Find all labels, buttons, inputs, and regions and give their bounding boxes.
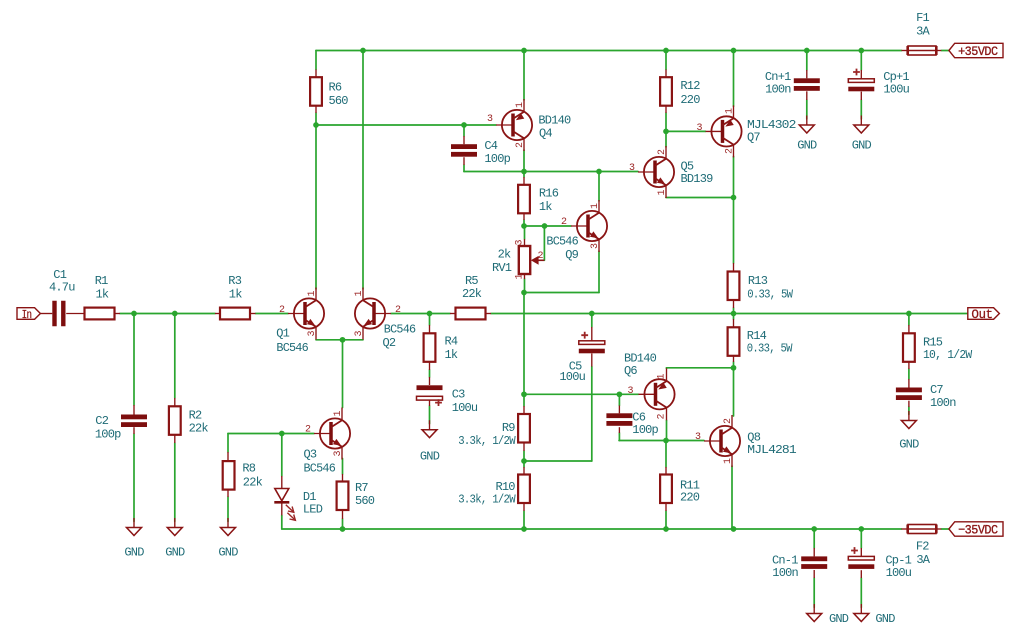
svg-text:2: 2 [561, 217, 567, 228]
svg-text:1: 1 [657, 189, 668, 195]
svg-text:GND: GND [218, 546, 238, 560]
svg-text:1: 1 [333, 410, 344, 416]
svg-text:3: 3 [333, 450, 344, 456]
svg-text:2: 2 [724, 148, 735, 154]
svg-text:4.7u: 4.7u [49, 280, 75, 294]
svg-text:1: 1 [307, 290, 318, 296]
svg-text:R9: R9 [502, 421, 515, 435]
svg-text:GND: GND [420, 450, 440, 464]
svg-text:2: 2 [657, 149, 668, 155]
svg-text:2: 2 [723, 418, 734, 424]
svg-text:1: 1 [514, 273, 525, 279]
svg-text:R12: R12 [680, 79, 700, 93]
svg-text:1: 1 [724, 108, 735, 114]
svg-text:GND: GND [899, 438, 919, 452]
svg-text:R16: R16 [539, 187, 559, 201]
svg-text:2: 2 [305, 425, 311, 436]
svg-text:2: 2 [656, 413, 667, 419]
svg-text:C2: C2 [95, 414, 108, 428]
svg-text:GND: GND [875, 612, 895, 626]
svg-text:GND: GND [165, 546, 185, 560]
svg-text:GND: GND [852, 139, 872, 153]
svg-text:3.3k, 1/2W: 3.3k, 1/2W [458, 493, 516, 507]
svg-text:1: 1 [723, 458, 734, 464]
svg-text:Q7: Q7 [747, 131, 760, 145]
svg-text:Q9: Q9 [565, 248, 578, 262]
svg-text:BD139: BD139 [681, 172, 714, 186]
svg-text:100p: 100p [95, 427, 121, 441]
svg-text:0.33, 5W: 0.33, 5W [747, 342, 793, 356]
svg-text:Q3: Q3 [304, 448, 317, 462]
svg-text:0.33, 5W: 0.33, 5W [747, 288, 793, 302]
svg-text:100p: 100p [484, 152, 510, 166]
svg-text:1: 1 [354, 290, 365, 296]
svg-text:2k: 2k [498, 247, 511, 261]
svg-text:3: 3 [590, 243, 601, 249]
svg-text:2: 2 [279, 305, 285, 316]
svg-text:1k: 1k [539, 200, 552, 214]
svg-text:R1: R1 [95, 274, 108, 288]
svg-text:3: 3 [695, 432, 701, 443]
svg-text:GND: GND [797, 139, 817, 153]
svg-text:−35VDC: −35VDC [958, 523, 998, 538]
svg-text:3: 3 [514, 239, 525, 245]
svg-text:R8: R8 [242, 462, 255, 476]
svg-text:3: 3 [487, 114, 493, 125]
svg-text:Q4: Q4 [539, 126, 552, 140]
svg-text:MJL4281: MJL4281 [747, 443, 796, 457]
svg-text:1: 1 [515, 102, 526, 108]
svg-text:BC546: BC546 [276, 341, 308, 355]
svg-text:1k: 1k [445, 348, 458, 362]
svg-text:F2: F2 [916, 540, 929, 554]
svg-text:BC546: BC546 [304, 462, 336, 476]
svg-text:3A: 3A [916, 25, 930, 39]
svg-text:BC546: BC546 [384, 322, 416, 336]
svg-text:22k: 22k [462, 287, 482, 301]
svg-text:100u: 100u [559, 370, 585, 384]
svg-text:2: 2 [395, 305, 401, 316]
svg-text:3: 3 [696, 123, 702, 134]
svg-text:R13: R13 [748, 274, 768, 288]
svg-text:100u: 100u [452, 401, 478, 415]
svg-text:R2: R2 [189, 408, 202, 422]
svg-text:2: 2 [537, 251, 543, 262]
svg-text:R3: R3 [228, 274, 241, 288]
svg-text:In: In [22, 309, 32, 322]
svg-text:Q6: Q6 [624, 364, 637, 378]
svg-text:220: 220 [680, 93, 700, 107]
svg-text:3: 3 [307, 330, 318, 336]
svg-text:100u: 100u [886, 566, 912, 580]
svg-text:10, 1/2W: 10, 1/2W [923, 348, 973, 362]
svg-text:220: 220 [680, 491, 700, 505]
svg-text:Q1: Q1 [276, 327, 289, 341]
svg-text:2: 2 [515, 142, 526, 148]
svg-text:560: 560 [355, 494, 375, 508]
svg-text:C4: C4 [484, 139, 497, 153]
svg-text:3.3k, 1/2W: 3.3k, 1/2W [458, 434, 516, 448]
svg-text:3: 3 [354, 330, 365, 336]
svg-text:100n: 100n [765, 83, 791, 97]
svg-text:560: 560 [329, 94, 349, 108]
svg-text:GND: GND [829, 612, 849, 626]
svg-text:1: 1 [656, 373, 667, 379]
svg-text:F1: F1 [916, 11, 929, 25]
svg-text:R6: R6 [329, 81, 342, 95]
svg-text:R7: R7 [355, 481, 368, 495]
svg-text:BC546: BC546 [546, 235, 578, 249]
svg-text:22k: 22k [243, 475, 263, 489]
svg-text:Q2: Q2 [383, 336, 396, 350]
svg-text:3: 3 [627, 386, 633, 397]
svg-text:+35VDC: +35VDC [958, 44, 998, 59]
svg-text:100p: 100p [632, 423, 658, 437]
svg-text:C3: C3 [452, 388, 465, 402]
svg-text:100n: 100n [772, 566, 798, 580]
svg-text:100u: 100u [883, 83, 909, 97]
svg-text:GND: GND [124, 546, 144, 560]
svg-text:1k: 1k [96, 288, 109, 302]
svg-text:1k: 1k [229, 287, 242, 301]
svg-text:3: 3 [629, 163, 635, 174]
svg-text:LED: LED [303, 503, 323, 517]
svg-text:Out: Out [971, 308, 992, 322]
svg-text:R4: R4 [445, 334, 458, 348]
svg-text:3A: 3A [916, 553, 930, 567]
svg-text:22k: 22k [189, 422, 209, 436]
svg-text:RV1: RV1 [492, 261, 512, 275]
svg-text:100n: 100n [930, 396, 956, 410]
svg-text:1: 1 [590, 203, 601, 209]
